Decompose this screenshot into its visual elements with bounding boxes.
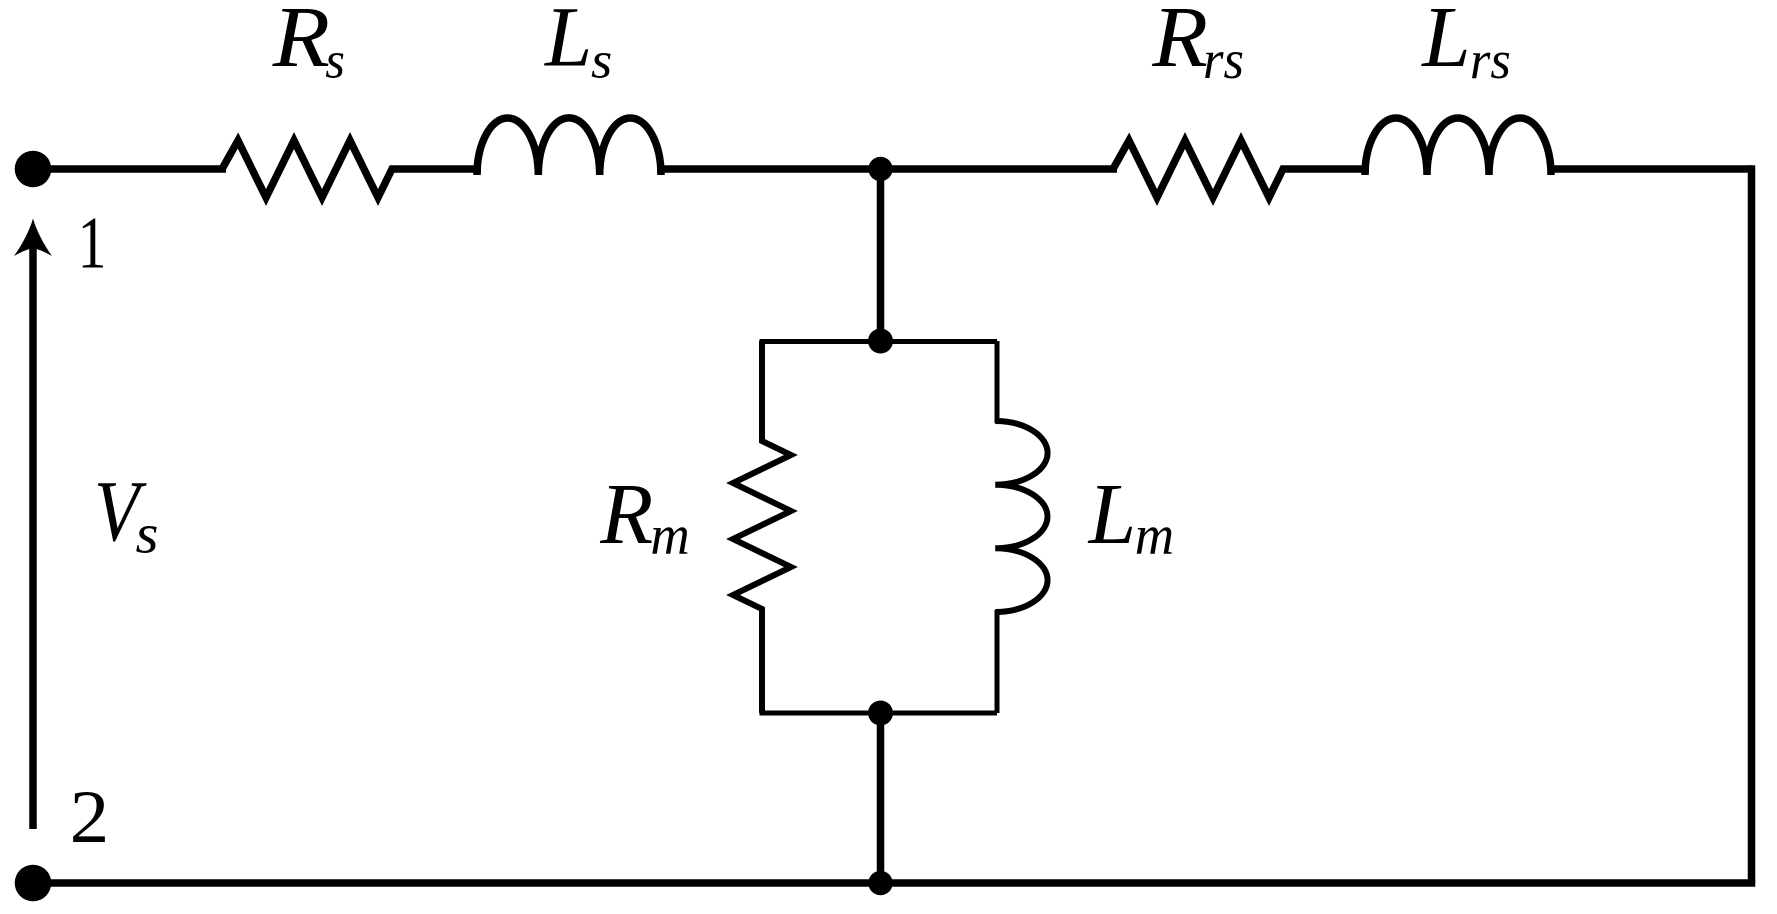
svg-text:L: L bbox=[1420, 0, 1470, 85]
label Vs bbox=[94, 463, 159, 565]
resistor Rs bbox=[222, 141, 481, 198]
svg-text:R: R bbox=[1151, 0, 1208, 85]
label Rs bbox=[272, 0, 345, 90]
inductor Lrs bbox=[1365, 118, 1551, 175]
svg-text:1: 1 bbox=[78, 203, 107, 285]
block bottom node dot bbox=[868, 701, 893, 726]
wire block bottom rail bbox=[760, 711, 998, 716]
label Rm bbox=[599, 466, 690, 566]
terminal node 2 dot bbox=[15, 865, 52, 902]
label Ls bbox=[544, 0, 612, 89]
svg-text:R: R bbox=[599, 466, 653, 562]
wire parallel block down to bottom bbox=[877, 713, 885, 883]
junction node bottom dot bbox=[868, 871, 892, 895]
wire right vertical bbox=[1748, 165, 1756, 883]
voltage source arrow Vs bbox=[29, 245, 37, 829]
terminal node 1 dot bbox=[15, 151, 52, 188]
svg-text:s: s bbox=[136, 504, 159, 565]
inductor Lm bbox=[995, 421, 1047, 612]
wire node A down to parallel block bbox=[877, 169, 885, 341]
svg-text:2: 2 bbox=[70, 775, 110, 859]
svg-text:s: s bbox=[325, 32, 345, 90]
wire Ls to node A bbox=[657, 165, 1117, 173]
inductor Ls bbox=[477, 118, 661, 175]
resistor Rrs bbox=[1113, 141, 1369, 198]
svg-text:R: R bbox=[272, 0, 330, 85]
svg-text:rs: rs bbox=[1203, 29, 1244, 91]
resistor Rm bbox=[733, 341, 791, 713]
junction node A dot bbox=[868, 157, 892, 181]
wire top-left bbox=[33, 165, 226, 173]
svg-text:m: m bbox=[650, 504, 689, 566]
label Lm bbox=[1087, 465, 1175, 566]
label Lrs bbox=[1420, 0, 1511, 90]
label Rrs bbox=[1151, 0, 1244, 90]
wire bottom bbox=[33, 879, 1755, 887]
block top node dot bbox=[868, 329, 893, 354]
svg-text:L: L bbox=[544, 0, 592, 85]
svg-text:L: L bbox=[1087, 465, 1137, 562]
wire Lrs to right corner bbox=[1551, 165, 1752, 173]
svg-text:s: s bbox=[591, 33, 612, 89]
svg-text:m: m bbox=[1135, 504, 1174, 566]
svg-text:rs: rs bbox=[1470, 29, 1511, 90]
wire block top rail bbox=[760, 339, 998, 344]
wire block right upper bbox=[995, 341, 1000, 423]
wire block right lower bbox=[995, 610, 1000, 713]
